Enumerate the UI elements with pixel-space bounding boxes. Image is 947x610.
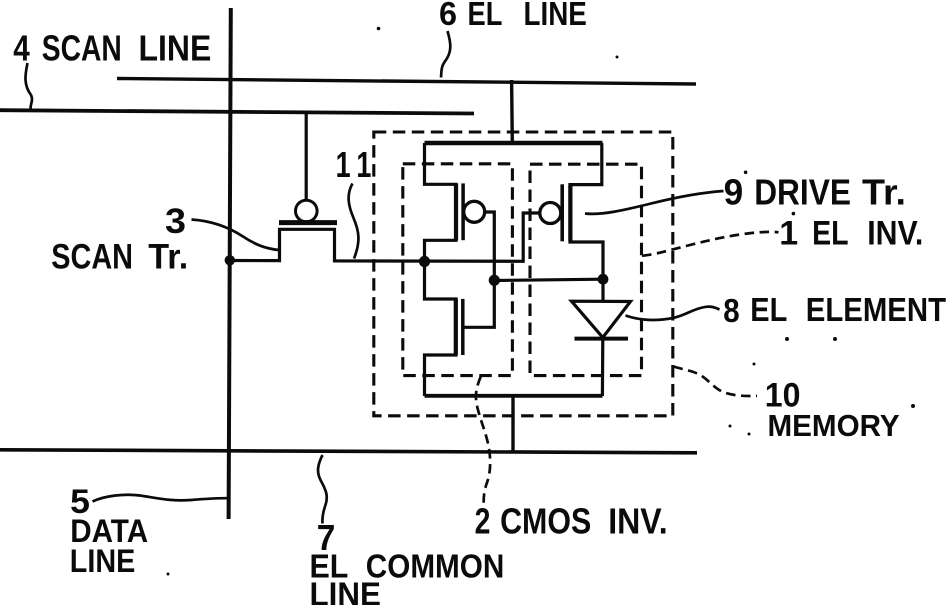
svg-text:3: 3 bbox=[165, 201, 186, 241]
svg-text:9: 9 bbox=[724, 171, 744, 212]
svg-text:LINE: LINE bbox=[524, 0, 587, 32]
svg-text:6: 6 bbox=[439, 0, 457, 32]
svg-text:Tr.: Tr. bbox=[862, 171, 906, 212]
svg-text:EL: EL bbox=[468, 0, 503, 32]
svg-text:Tr.: Tr. bbox=[148, 238, 188, 277]
svg-text:1: 1 bbox=[356, 144, 371, 185]
svg-text:LINE: LINE bbox=[70, 543, 136, 579]
svg-text:EL: EL bbox=[812, 215, 848, 253]
svg-text:SCAN: SCAN bbox=[51, 238, 133, 277]
svg-text:LINE: LINE bbox=[310, 576, 381, 606]
svg-text:SCAN: SCAN bbox=[42, 28, 122, 69]
svg-text:8: 8 bbox=[723, 292, 739, 329]
svg-text:1: 1 bbox=[336, 144, 351, 185]
svg-text:COMMON: COMMON bbox=[366, 549, 505, 586]
svg-text:LINE: LINE bbox=[139, 28, 212, 69]
svg-text:MEMORY: MEMORY bbox=[768, 408, 900, 443]
svg-text:1: 1 bbox=[779, 215, 798, 253]
svg-text:EL: EL bbox=[750, 291, 787, 328]
svg-text:DRIVE: DRIVE bbox=[754, 171, 851, 212]
svg-text:INV.: INV. bbox=[608, 501, 668, 542]
svg-text:ELEMENT: ELEMENT bbox=[806, 291, 946, 328]
svg-text:CMOS: CMOS bbox=[500, 501, 591, 542]
svg-text:2: 2 bbox=[475, 501, 491, 542]
svg-text:4: 4 bbox=[13, 28, 30, 69]
svg-text:INV.: INV. bbox=[867, 215, 923, 253]
